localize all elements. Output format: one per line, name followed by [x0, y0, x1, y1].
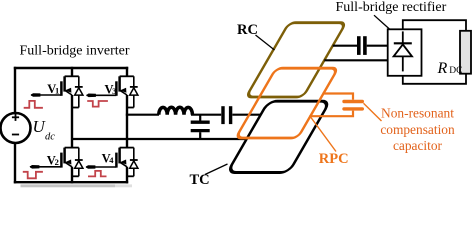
- svg-text:Full-bridge inverter: Full-bridge inverter: [20, 44, 130, 59]
- pointer line from TC label to coil TC: [205, 164, 228, 175]
- wire: inductor to series capacitor: [191, 114, 221, 116]
- wire: source branch upper lead: [14, 67, 16, 113]
- wire: source branch lower lead: [14, 143, 16, 183]
- transistor V1 (IGBT, left leg top): [31, 76, 79, 97]
- label R_DC: [437, 60, 463, 77]
- gate pulse waveform V1: [24, 101, 43, 108]
- capacitor C3 series (RC side) plates: [357, 36, 361, 55]
- capacitor C1 parallel compensation, upper lead: [199, 115, 201, 121]
- voltage source polarity minus sign: [12, 134, 19, 136]
- wire: coil RC upper terminal to series capacitor C3: [333, 45, 357, 47]
- svg-text:capacitor: capacitor: [393, 138, 443, 153]
- wire: DC output loop bottom: [403, 74, 466, 84]
- transistor V3 (IGBT, right leg top): [86, 76, 134, 97]
- label: Non-resonant compensation capacitor: [380, 106, 455, 154]
- svg-text:Non-resonant: Non-resonant: [381, 106, 454, 121]
- label V4: [102, 152, 115, 166]
- coil TC (transmitting coil, black rounded parallelogram): [227, 101, 330, 172]
- wire: coil RC lower terminal to rectifier input: [324, 59, 388, 61]
- wire: left leg mid segment (V1 emitter to V2 drain, node A tap): [71, 95, 73, 148]
- voltage source polarity plus sign: [12, 114, 19, 121]
- resistor R_DC load: [460, 31, 471, 74]
- diode D2 antiparallel with V2: [72, 148, 83, 177]
- gate pulse waveform V3: [87, 101, 108, 107]
- wire: right leg drain segment V3: [126, 67, 128, 77]
- wire: left leg bottom segment (V2 emitter to rail): [71, 167, 73, 184]
- svg-text:R: R: [437, 60, 448, 77]
- wire: inverter output top (right leg to inductor): [126, 114, 159, 116]
- svg-text:3: 3: [112, 86, 116, 96]
- diode D3 antiparallel with V3: [127, 76, 138, 107]
- gate pulse waveform V2: [23, 172, 43, 179]
- svg-text:RC: RC: [237, 22, 258, 38]
- wire: right leg mid segment (V3 emitter to V4 drain, node B tap): [126, 95, 128, 148]
- svg-text:dc: dc: [45, 131, 55, 142]
- svg-text:1: 1: [55, 86, 59, 96]
- diode D1 antiparallel with V1: [72, 76, 83, 107]
- svg-text:2: 2: [55, 157, 59, 167]
- diode symbol inside rectifier: [394, 31, 412, 71]
- svg-text:Full-bridge rectifier: Full-bridge rectifier: [336, 0, 447, 15]
- coil RPC (repeater coil, orange rounded parallelogram): [236, 68, 338, 138]
- wire: top DC rail of inverter: [14, 67, 128, 69]
- svg-text:compensation: compensation: [380, 122, 455, 137]
- svg-text:TC: TC: [190, 172, 210, 188]
- svg-text:RPC: RPC: [319, 151, 349, 167]
- label V1: [47, 82, 59, 96]
- pointer line from capacitor label to C4: [364, 103, 382, 121]
- wire: DC output loop top: [403, 20, 466, 31]
- inductor L1 series filter: [159, 107, 193, 114]
- wire: series capacitor to coil TC: [232, 114, 260, 116]
- wire: bottom DC rail of inverter: [14, 181, 128, 183]
- pointer line from RPC label to coil RPC: [310, 116, 337, 152]
- value label U_dc: [33, 117, 56, 142]
- voltage source U_dc circle: [1, 113, 31, 143]
- transistor V4 (IGBT, right leg bottom): [86, 148, 134, 169]
- wire: left leg drain segment V1: [71, 67, 73, 77]
- capacitor C1 plates: [191, 121, 210, 124]
- capacitor C4 non-resonant compensation (orange): [311, 94, 362, 117]
- full-bridge rectifier box U1: [388, 29, 422, 76]
- wire: right leg bottom segment (V4 emitter to rail): [126, 167, 128, 184]
- label V2: [47, 154, 59, 168]
- svg-text:4: 4: [109, 155, 114, 165]
- svg-text:DC: DC: [449, 66, 462, 76]
- transistor V2 (IGBT, left leg bottom): [30, 148, 79, 169]
- pointer line from RC label to coil RC: [256, 35, 275, 50]
- wire: capacitor C3 to rectifier input: [367, 45, 389, 47]
- pointer line from rectifier label to box: [374, 15, 389, 29]
- wire: inverter output bottom (left leg to coil TC): [72, 138, 247, 140]
- capacitor C1 lower lead: [199, 132, 201, 139]
- diode D4 antiparallel with V4: [127, 148, 138, 177]
- capacitor C2 series compensation plates: [221, 106, 224, 124]
- coil RC (receiving coil, olive rounded parallelogram): [246, 23, 346, 97]
- label V3: [105, 82, 117, 96]
- gate pulse waveform V4: [88, 171, 107, 177]
